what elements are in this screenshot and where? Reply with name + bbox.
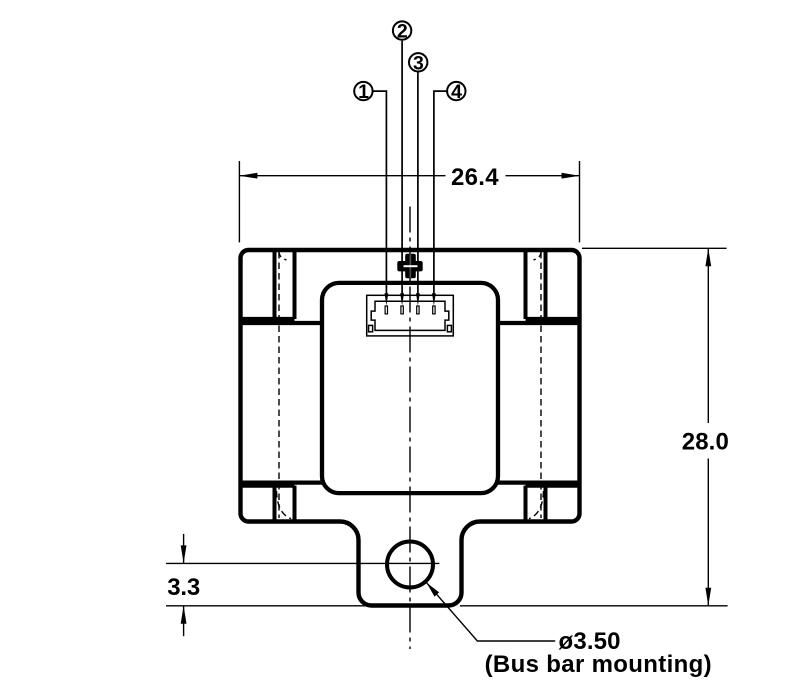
svg-text:26.4: 26.4 bbox=[451, 164, 499, 191]
svg-text:(Bus bar mounting): (Bus bar mounting) bbox=[485, 651, 712, 678]
svg-text:1: 1 bbox=[358, 81, 369, 103]
svg-text:28.0: 28.0 bbox=[682, 429, 729, 456]
svg-text:4: 4 bbox=[451, 81, 462, 103]
svg-text:3.3: 3.3 bbox=[167, 574, 200, 601]
svg-text:2: 2 bbox=[397, 21, 408, 43]
svg-text:3: 3 bbox=[413, 52, 424, 74]
